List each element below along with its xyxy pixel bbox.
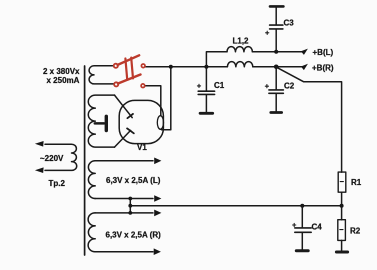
tube V1 envelope: [119, 100, 163, 143]
ground R2: [336, 251, 347, 254]
svg-text:2 x 380Vx: 2 x 380Vx: [43, 67, 80, 76]
wire +B(R) node diagonal to R1: [276, 67, 341, 172]
switch contact top-right: [141, 64, 145, 68]
inductor L2 lower: [227, 62, 252, 67]
inductor L1 upper: [227, 47, 252, 52]
filament winding: [89, 66, 114, 84]
arrow heater L top: [154, 158, 161, 165]
tube V1 anode 2 lead: [115, 130, 131, 147]
arrow +B(R): [301, 64, 308, 70]
capacitor C3 lead upper: [275, 7, 277, 24]
node tie top: [128, 197, 132, 201]
heater winding R (6,3V R): [88, 213, 95, 252]
capacitor C2 plates: [269, 90, 284, 93]
tube V1 anode 2 plate tick: [127, 128, 134, 133]
wire heater L bottom lead: [95, 198, 153, 200]
node tie bottom: [128, 211, 132, 215]
node tie mid: [128, 204, 132, 208]
wire heater tie vertical: [129, 199, 131, 213]
node C3 junction: [274, 50, 278, 54]
arrow ~220V top: [35, 141, 44, 147]
switch contact top-left: [114, 64, 118, 68]
resistor R2: [338, 220, 346, 241]
node rail C4 junction: [300, 204, 304, 208]
arrow heater R top: [154, 210, 161, 217]
wire heater R top lead: [95, 212, 153, 214]
resistor R1: [338, 172, 346, 192]
transformer primary winding: [45, 144, 77, 170]
capacitor C1 polarity +: [197, 84, 200, 87]
arrow ~220V bottom: [35, 167, 44, 173]
capacitor C4 polarity +: [293, 223, 296, 226]
wire L1 to +B(L): [252, 51, 303, 53]
node rail R junction: [340, 204, 344, 208]
svg-text:C3: C3: [284, 19, 295, 28]
svg-text:C4: C4: [312, 223, 323, 232]
svg-text:C2: C2: [284, 82, 295, 91]
wire heater tie rail: [130, 205, 341, 207]
capacitor C1 lead lower: [205, 95, 207, 112]
capacitor C2 lead upper: [275, 67, 277, 90]
svg-text:~220V: ~220V: [40, 154, 64, 163]
resistor R2 mark: [340, 229, 343, 231]
capacitor C3 lead lower: [275, 29, 277, 51]
heater winding L (6,3V L): [88, 161, 95, 199]
ground C1: [200, 112, 213, 115]
wire heater R bottom lead: [95, 251, 153, 253]
wire upper branch: [206, 52, 227, 67]
capacitor C3 polarity +: [266, 31, 269, 34]
node junction main filter: [204, 65, 208, 69]
arrow heater R bottom: [154, 248, 161, 255]
HV center tap ground bar: [105, 116, 108, 130]
arrow heater L bottom: [154, 195, 161, 202]
svg-text:Tp.2: Tp.2: [49, 179, 66, 188]
switch linkage dash 2: [131, 58, 133, 79]
switch linkage dash 1: [125, 59, 127, 80]
tube V1 anode 1 plate tick: [127, 114, 133, 118]
wire cathode to B+ node: [162, 68, 171, 130]
svg-text:6,3V x 2,5A (L): 6,3V x 2,5A (L): [106, 176, 161, 185]
capacitor C4 plates: [295, 228, 311, 232]
switch contact bottom-right: [141, 84, 145, 88]
wire heater L top lead: [95, 160, 153, 162]
transformer core: [84, 66, 86, 255]
svg-text:R2: R2: [350, 227, 361, 236]
ground C2: [271, 111, 282, 114]
switch lever top: [118, 55, 140, 65]
svg-text:R1: R1: [351, 178, 362, 187]
switch S (red, DPST): [114, 55, 145, 87]
resistor R2 lead upper: [341, 206, 343, 220]
switch contact bottom-left: [114, 82, 118, 86]
node junction 1: [169, 65, 173, 69]
resistor R1 mark: [340, 181, 343, 183]
svg-text:C1: C1: [214, 81, 225, 90]
wire L2 to +B(R): [253, 66, 303, 68]
svg-text:+B(L): +B(L): [313, 48, 334, 57]
wire switch bottom contact to cathode: [145, 86, 161, 116]
tube V1 anode 1 lead: [115, 95, 133, 118]
capacitor C4 lead upper: [301, 206, 303, 228]
capacitor C1 lead upper: [205, 67, 207, 91]
svg-text:L1,2: L1,2: [233, 37, 250, 46]
capacitor C3 plates: [270, 25, 283, 29]
capacitor C2 polarity +: [265, 85, 268, 88]
node C2 junction: [274, 65, 279, 70]
switch lever bottom: [118, 75, 141, 84]
capacitor C1 plates: [198, 91, 214, 94]
tube V1 cathode ellipse: [157, 116, 163, 130]
HV center tap lead: [95, 122, 104, 125]
arrow +B(L): [301, 49, 308, 55]
capacitor C2 lead lower: [275, 94, 277, 112]
ground C4: [296, 249, 308, 252]
wire R2 to ground: [341, 240, 343, 250]
wire main line switch to choke: [145, 66, 227, 68]
capacitor C3 top bar: [270, 5, 283, 8]
HV secondary winding: [88, 95, 114, 147]
svg-text:+B(R): +B(R): [312, 64, 334, 73]
svg-text:x 250mA: x 250mA: [47, 76, 80, 85]
wire R1 to rail: [341, 192, 343, 206]
svg-text:V1: V1: [137, 143, 147, 152]
svg-text:6,3V x 2,5A (R): 6,3V x 2,5A (R): [106, 231, 162, 240]
capacitor C4 lead lower: [301, 233, 303, 250]
